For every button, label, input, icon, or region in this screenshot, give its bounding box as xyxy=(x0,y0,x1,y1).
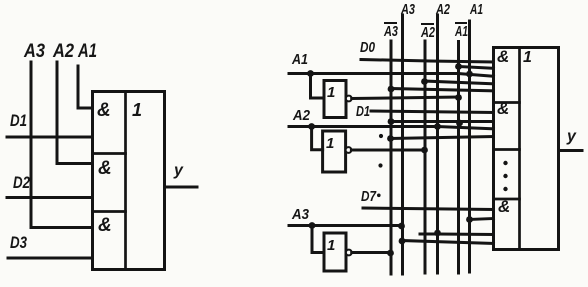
wire A1 to gate 8 xyxy=(470,219,494,220)
bus column nA1 xyxy=(457,42,460,274)
junction node A2 column xyxy=(434,123,441,130)
wire nA1 to gate 1 xyxy=(459,67,494,69)
DD2 divider cell 2/3 xyxy=(494,148,520,151)
wire tap to inverter U2 xyxy=(312,127,323,150)
junction node nA2 gate1 xyxy=(421,78,428,85)
junction node nA3 column (U3 out) xyxy=(387,250,394,257)
wire tap to inverter U1 xyxy=(311,74,325,99)
dot after D7 label xyxy=(377,194,381,198)
svg-text:&: & xyxy=(98,215,112,236)
svg-text:A1: A1 xyxy=(77,41,97,62)
bus column A3 xyxy=(401,15,404,274)
svg-text:&: & xyxy=(98,158,112,179)
svg-text:&: & xyxy=(497,47,509,66)
DD2 ellipsis dots in cell 3 xyxy=(503,161,507,165)
wire A1 input vertical+bend xyxy=(78,66,93,108)
overbar of nA1 xyxy=(455,22,467,24)
junction node A1 column xyxy=(466,71,473,78)
ellipsis dot 2 (between D1 and D7) xyxy=(378,163,382,167)
svg-text:1: 1 xyxy=(326,135,334,152)
svg-text:D1: D1 xyxy=(10,111,27,130)
wire A3 input xyxy=(289,224,403,227)
inverter U1 bubble xyxy=(346,96,352,102)
svg-text:A2: A2 xyxy=(420,24,435,41)
wire D3 xyxy=(8,257,93,260)
wire tap to inverter U3 xyxy=(312,226,324,253)
svg-text:1: 1 xyxy=(327,84,335,101)
bus column nA3 xyxy=(390,41,393,274)
svg-text:A1: A1 xyxy=(454,23,468,40)
AND-OR block DD1 outline xyxy=(93,92,165,270)
inverter U1 box xyxy=(324,81,346,118)
svg-text:A3: A3 xyxy=(23,41,45,62)
wire nA2 to gate 1 xyxy=(425,81,494,84)
svg-text:A2: A2 xyxy=(292,107,310,124)
DD2 inner divider xyxy=(518,48,521,250)
junction node nA2 column (U2 out) xyxy=(421,147,428,154)
bus column nA2 xyxy=(424,41,427,273)
svg-text:A1: A1 xyxy=(469,1,483,18)
junction node nA3 gate1 xyxy=(388,86,395,93)
bus column A1 xyxy=(468,21,471,272)
DD2 divider cell 1/2 xyxy=(494,101,520,104)
inverter U3 bubble xyxy=(346,250,352,256)
DD1 divider AND cell 2/3 xyxy=(93,210,126,213)
junction node A2 tap xyxy=(308,123,315,130)
svg-text:D2: D2 xyxy=(13,173,30,192)
output wire y (right circuit) xyxy=(559,149,583,152)
wire U2 output to nA2 column xyxy=(351,149,425,152)
junction node nA1 column (U1 out) xyxy=(455,94,462,101)
wire nA3 to gate 2 xyxy=(391,120,494,123)
inverter U2 box xyxy=(323,131,346,172)
inverter U3 box xyxy=(324,233,346,271)
overbar of nA3 xyxy=(384,22,397,24)
DD2 divider cell 3/4 xyxy=(494,198,520,201)
svg-text:A3: A3 xyxy=(291,206,309,223)
svg-text:A1: A1 xyxy=(291,51,308,68)
svg-text:1: 1 xyxy=(523,49,532,66)
svg-text:D0: D0 xyxy=(360,39,376,56)
svg-text:D3: D3 xyxy=(10,233,27,252)
svg-text:y: y xyxy=(173,162,184,179)
DD1 inner divider (AND column / OR column) xyxy=(124,92,127,270)
inverter U2 bubble xyxy=(346,147,352,153)
svg-text:D7: D7 xyxy=(361,188,377,205)
wire nA3 to gate 1 xyxy=(391,89,494,91)
wire D2 xyxy=(7,196,93,199)
junction node A2 gate8 xyxy=(434,230,441,237)
ellipsis dot 1 (between D1 and D7) xyxy=(379,134,383,138)
junction node A3 column xyxy=(398,223,405,230)
bus column A2 xyxy=(436,15,439,273)
output wire y (left circuit) xyxy=(165,186,198,189)
junction node nA1 gate1 xyxy=(455,63,462,70)
svg-text:&: & xyxy=(497,99,509,118)
svg-text:&: & xyxy=(498,197,510,216)
svg-text:A2: A2 xyxy=(52,41,74,62)
wire A3 input vertical+bend xyxy=(31,62,93,228)
svg-text:D1: D1 xyxy=(356,103,370,120)
junction node A3 tap xyxy=(309,222,316,229)
wire D7 xyxy=(363,208,494,210)
wire A1 input xyxy=(289,74,494,77)
svg-text:y: y xyxy=(566,128,577,145)
junction node nA3b gate2 xyxy=(387,135,394,142)
junction node A3 gate8 xyxy=(399,238,406,245)
svg-text:A2: A2 xyxy=(435,1,450,18)
wire U3 output to nA3 column xyxy=(352,251,391,254)
junction node A1 gate8 xyxy=(466,216,473,223)
wire U1 output to nA1 column xyxy=(352,97,459,99)
svg-text:A3: A3 xyxy=(400,1,415,18)
wire A3 to gate 8 xyxy=(402,241,494,244)
svg-text:&: & xyxy=(97,100,111,121)
wire D1 xyxy=(371,111,494,113)
AND-OR block DD2 outline xyxy=(494,48,559,250)
DD1 divider AND cell 1/2 xyxy=(93,152,126,155)
junction node A1 tap xyxy=(307,70,314,77)
wire nA3b to gate 2 xyxy=(391,137,494,139)
svg-text:1: 1 xyxy=(327,237,335,254)
wire A2 to gate 8 xyxy=(420,233,494,237)
wire D0 xyxy=(361,60,494,63)
svg-text:A3: A3 xyxy=(383,23,398,40)
svg-text:1: 1 xyxy=(132,100,142,120)
wire D1 xyxy=(7,136,93,139)
overbar of nA2 xyxy=(421,23,434,25)
junction node nA3 gate2 xyxy=(388,118,395,125)
wire A2 input vertical+bend xyxy=(57,62,93,164)
junction node nA1 gate2 xyxy=(456,120,463,127)
wire A2 input xyxy=(289,127,494,129)
